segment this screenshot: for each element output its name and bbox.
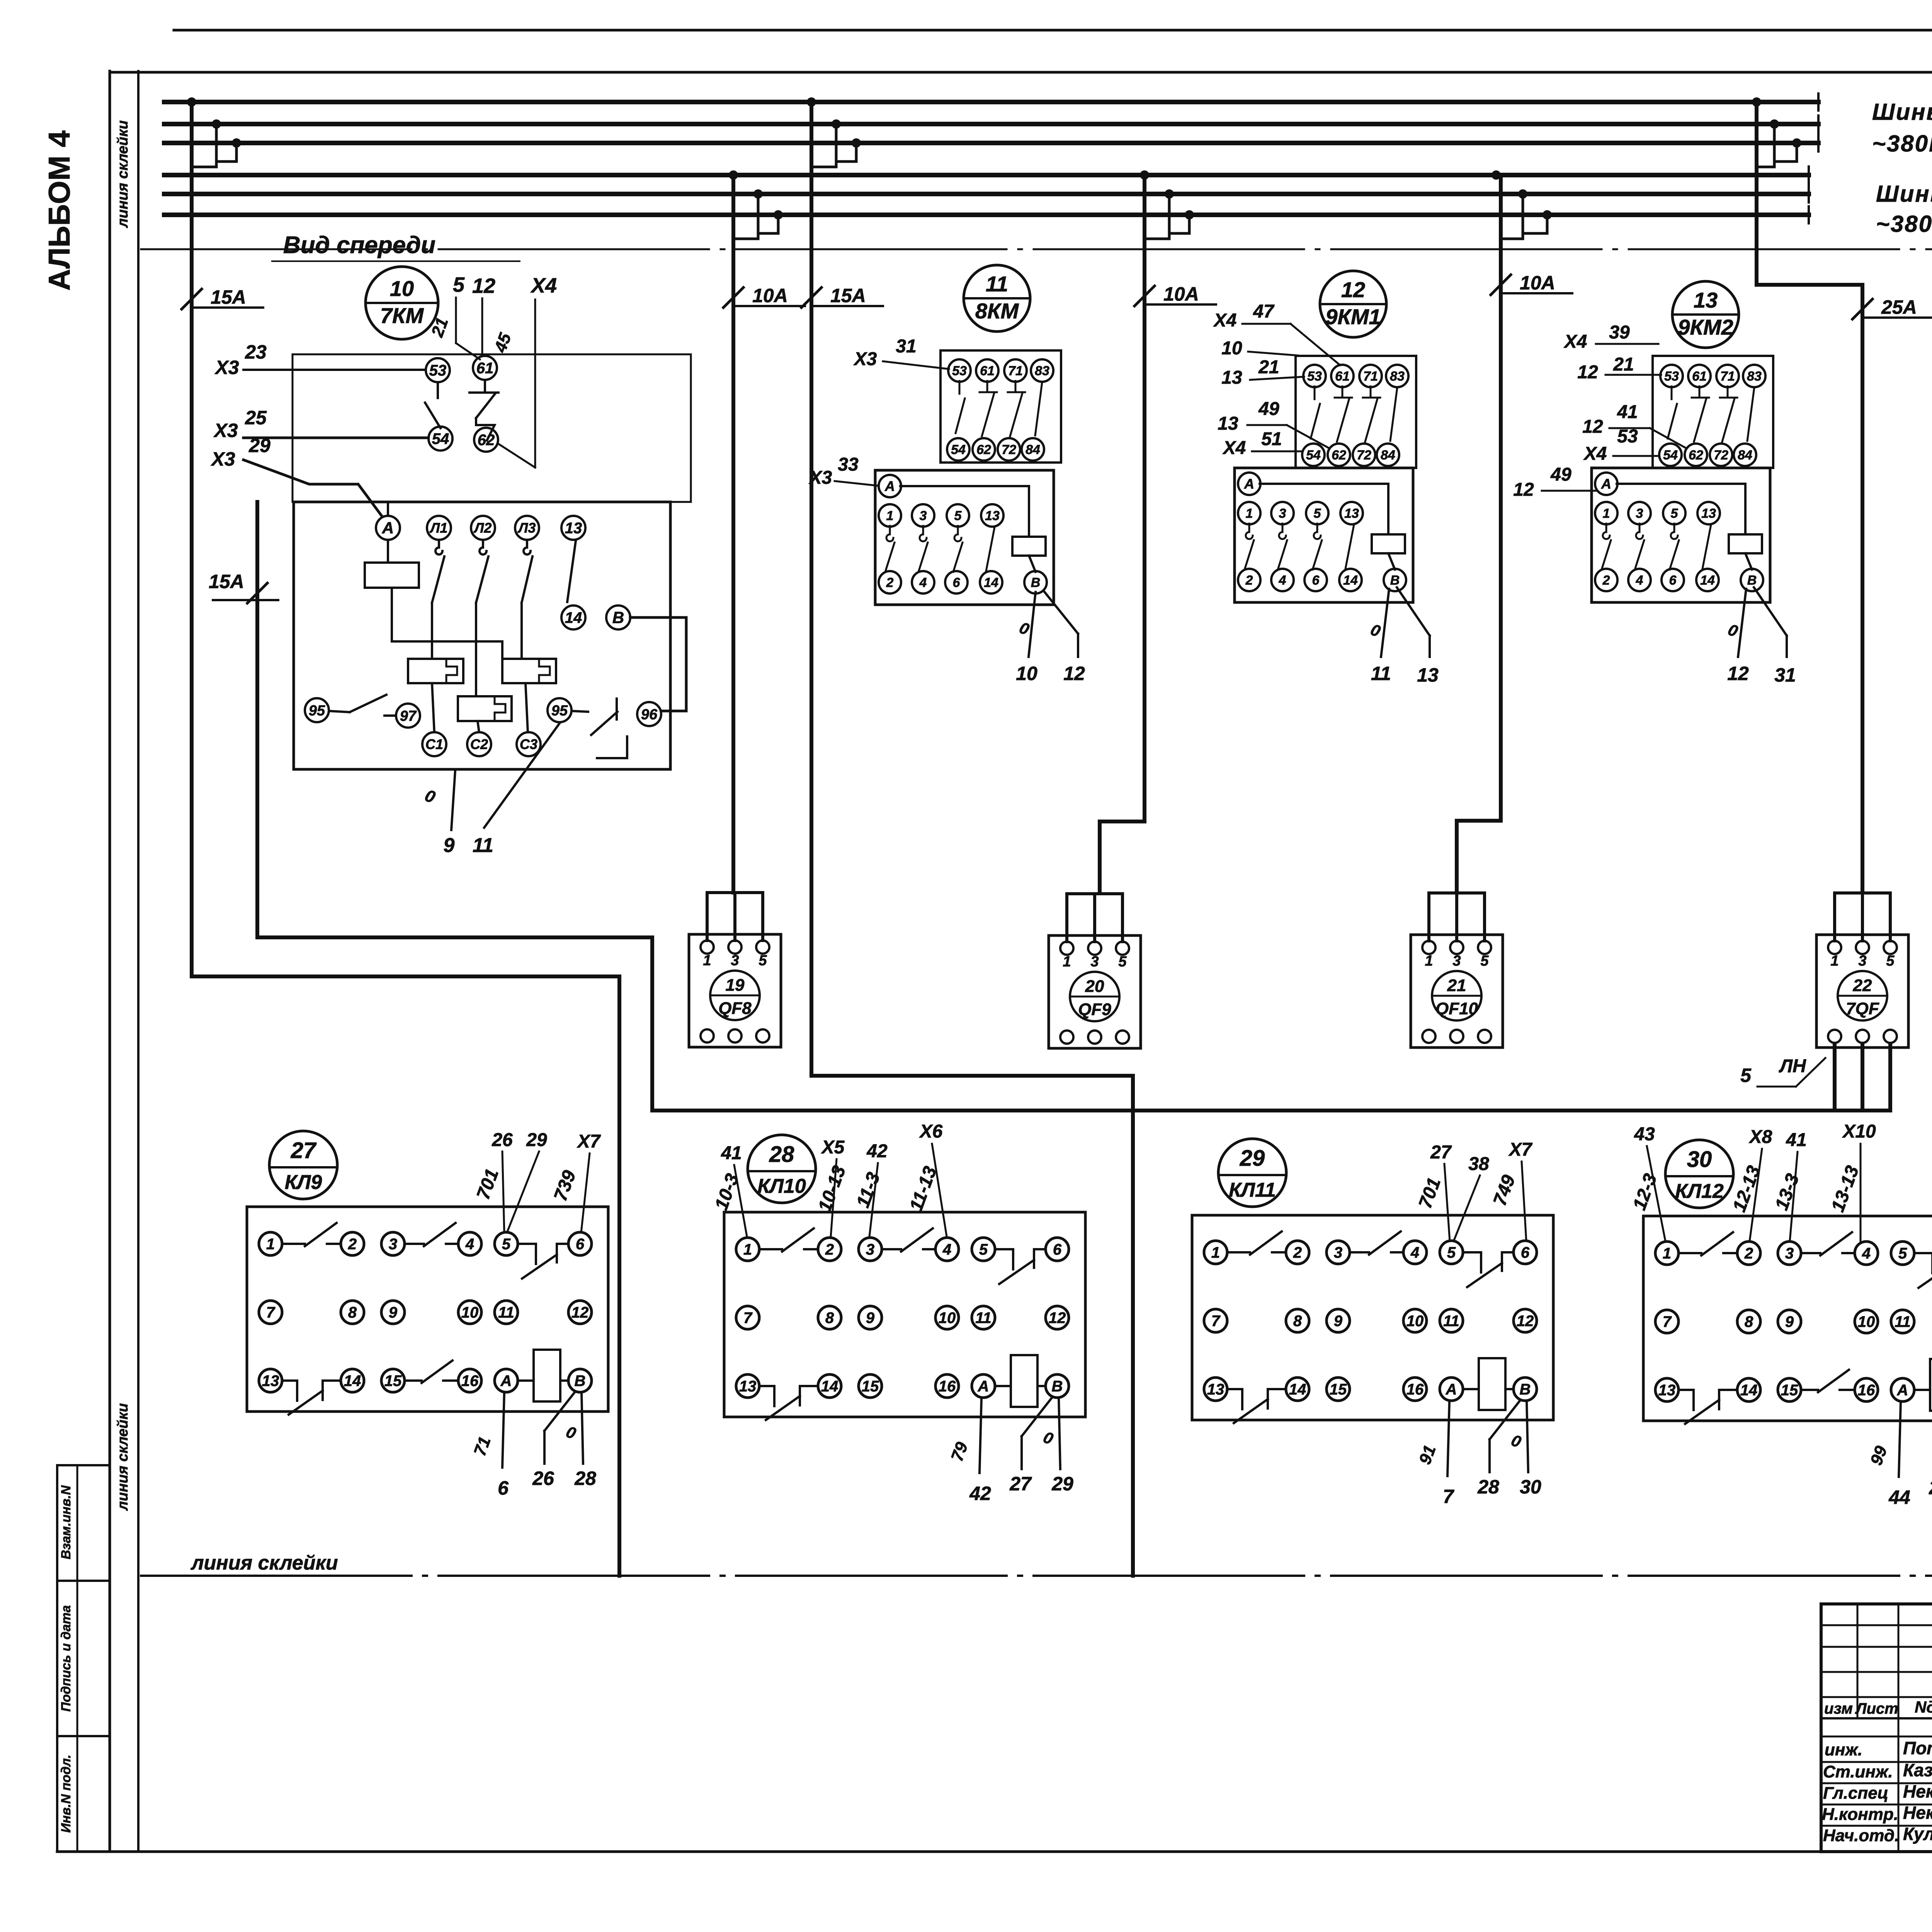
svg-text:3: 3 <box>1636 506 1643 521</box>
glue line (bottom, dash-dot) <box>141 1575 1932 1577</box>
wire stub 7QF bottom pin4 <box>1861 1036 1864 1111</box>
svg-text:61: 61 <box>980 364 995 378</box>
svg-text:Лист: Лист <box>1855 1700 1898 1717</box>
sheet bottom border <box>57 1850 1932 1853</box>
svg-text:14: 14 <box>984 575 998 590</box>
relay KL9 top wire labels 26 29 X7 701 739 <box>473 1130 601 1233</box>
svg-text:13: 13 <box>985 509 1000 523</box>
svg-text:19: 19 <box>726 976 745 995</box>
svg-text:Х4: Х4 <box>1563 332 1587 352</box>
wire from contactor 7KM top to breaker 7QF bottom (net LN) <box>257 502 1890 1111</box>
svg-text:14: 14 <box>1740 1382 1758 1399</box>
contactor 7KM aux terminal 53 <box>426 358 450 382</box>
svg-text:62: 62 <box>1332 448 1346 463</box>
contactor 7KM aux terminal 61 <box>473 356 497 380</box>
svg-text:13: 13 <box>1207 1381 1225 1398</box>
svg-text:27: 27 <box>1430 1142 1452 1163</box>
svg-text:42: 42 <box>866 1141 888 1162</box>
power bus 380V 400A section II - line 3 <box>164 206 1809 223</box>
svg-text:21: 21 <box>1258 357 1279 378</box>
svg-text:QF10: QF10 <box>1435 999 1478 1018</box>
contactor 7KM thermal trip contact 95-96 <box>571 699 627 758</box>
glue-strip divider line (left) <box>137 71 139 1852</box>
svg-text:12: 12 <box>1063 663 1085 684</box>
svg-text:71: 71 <box>1008 364 1023 378</box>
svg-text:Х7: Х7 <box>577 1131 601 1152</box>
svg-text:3: 3 <box>1279 506 1286 521</box>
fuse mark 15A on second feeder <box>801 285 883 308</box>
label линия склейки (bottom-left) <box>190 1552 338 1574</box>
svg-text:6: 6 <box>1669 573 1677 588</box>
svg-text:10: 10 <box>1858 1313 1875 1330</box>
wire stub 7QF bottom pin2 <box>1833 1036 1837 1111</box>
contactor 9KM1 auxiliary contact box <box>1296 356 1416 468</box>
svg-text:53: 53 <box>952 364 967 378</box>
bus tap 25A for breaker 7QF <box>1752 97 1801 167</box>
svg-text:7КМ: 7КМ <box>380 303 424 328</box>
contactor 9KM2 main block <box>1592 468 1770 602</box>
svg-text:13: 13 <box>1218 413 1238 434</box>
svg-text:Х4: Х4 <box>530 274 557 297</box>
svg-text:А: А <box>500 1372 512 1389</box>
svg-text:5: 5 <box>1740 1065 1752 1086</box>
svg-text:5: 5 <box>1671 506 1679 521</box>
svg-text:8: 8 <box>1745 1313 1753 1330</box>
svg-text:31: 31 <box>1774 664 1796 686</box>
svg-text:1: 1 <box>703 952 711 969</box>
label X3 31 with wire to 8KM terminal 53 <box>853 336 949 369</box>
svg-text:7: 7 <box>743 1310 753 1327</box>
svg-text:13: 13 <box>1417 664 1439 686</box>
svg-text:линия склейки: линия склейки <box>115 1403 131 1511</box>
contactor 7KM main block outline <box>294 502 670 769</box>
svg-text:29: 29 <box>526 1130 547 1150</box>
title block signature row Ст.инж. Казакова <box>1823 1760 1932 1805</box>
svg-text:3: 3 <box>731 952 739 969</box>
svg-text:30: 30 <box>1687 1147 1712 1172</box>
svg-text:12: 12 <box>1582 417 1603 437</box>
bus tap 10A for breaker QF10 <box>1492 170 1552 239</box>
svg-text:44: 44 <box>1888 1486 1910 1508</box>
svg-text:6: 6 <box>576 1236 585 1253</box>
svg-text:3: 3 <box>389 1236 397 1253</box>
svg-text:2: 2 <box>1602 573 1610 588</box>
wires and labels 0 10 12 under 8KM terminal B <box>1016 590 1085 684</box>
contactor 7KM main contact pole 3 <box>522 540 532 659</box>
svg-text:11: 11 <box>498 1304 514 1321</box>
svg-text:72: 72 <box>1714 448 1728 463</box>
svg-text:Л1: Л1 <box>429 520 448 536</box>
label X4 47 with wire to 9KM1 contact 61 <box>1213 301 1340 365</box>
svg-text:62: 62 <box>976 442 991 457</box>
svg-text:С3: С3 <box>520 736 537 752</box>
label АЛЬБОМ 4 (vertical) <box>42 131 76 291</box>
svg-text:49: 49 <box>1258 399 1279 419</box>
mark 0 under 7KM <box>422 786 438 807</box>
designator circle 11/8КМ for contactor 8KM <box>964 265 1030 332</box>
contactor 7KM aux terminal 62 <box>474 428 498 452</box>
contactor 7KM main contact pole 1 <box>432 540 444 659</box>
label X3 25 with wire to terminal 54 <box>213 407 429 441</box>
title block left grid verticals <box>1857 1604 1932 1852</box>
svg-text:3: 3 <box>866 1241 874 1258</box>
svg-text:1: 1 <box>743 1241 752 1258</box>
power bus 380V 400A section II - line 2 <box>164 185 1809 202</box>
svg-text:КЛ9: КЛ9 <box>285 1171 322 1194</box>
svg-text:12: 12 <box>1727 663 1749 684</box>
svg-text:КЛ12: КЛ12 <box>1675 1180 1724 1202</box>
svg-text:14: 14 <box>344 1372 361 1389</box>
svg-text:Л2: Л2 <box>473 520 492 536</box>
svg-text:QF9: QF9 <box>1078 1000 1111 1019</box>
svg-text:14: 14 <box>821 1378 838 1395</box>
svg-text:6: 6 <box>1053 1241 1062 1258</box>
contactor 7KM aux contact 13-14 <box>567 541 576 602</box>
svg-text:Х3: Х3 <box>213 420 238 441</box>
svg-text:39: 39 <box>1609 322 1630 343</box>
relay KL9 bottom labels 71 6 0 26 28 <box>470 1391 596 1499</box>
svg-text:10А: 10А <box>752 285 788 306</box>
svg-text:QF8: QF8 <box>718 999 752 1018</box>
contactor 7KM terminal C1 <box>422 683 446 756</box>
svg-text:1: 1 <box>886 509 894 523</box>
svg-text:12: 12 <box>1341 277 1365 302</box>
svg-text:9: 9 <box>389 1304 398 1321</box>
svg-text:10: 10 <box>390 276 414 301</box>
svg-text:9: 9 <box>1785 1313 1794 1330</box>
label Вид спереди <box>272 232 520 261</box>
contactor 7KM terminal 14 <box>561 605 585 629</box>
svg-text:Подпись и дата: Подпись и дата <box>59 1605 73 1712</box>
svg-text:7: 7 <box>1443 1486 1454 1507</box>
svg-text:1: 1 <box>1211 1244 1220 1261</box>
svg-text:Х3: Х3 <box>853 349 877 369</box>
svg-text:29: 29 <box>248 435 270 456</box>
label 12 with wire to contact 61 <box>472 274 495 356</box>
svg-text:15А: 15А <box>211 286 246 308</box>
svg-text:47: 47 <box>1253 301 1275 322</box>
wire 25A tap from 80A bus to breaker 7QF <box>1757 104 1862 893</box>
svg-text:4: 4 <box>465 1236 474 1253</box>
svg-text:12: 12 <box>571 1304 589 1321</box>
svg-text:5: 5 <box>1447 1244 1456 1261</box>
svg-text:А: А <box>382 519 394 537</box>
power bus 380V 80A section II - line 1 <box>164 94 1818 111</box>
svg-text:2: 2 <box>886 575 894 590</box>
svg-text:С2: С2 <box>470 736 488 752</box>
relay KL12 top wire labels 43 X8 41 X10 <box>1629 1121 1876 1241</box>
label 13 49 with wire to 9KM1 terminal 62 <box>1218 399 1329 448</box>
svg-text:10А: 10А <box>1520 272 1555 294</box>
svg-text:В: В <box>612 609 624 627</box>
svg-text:Nдокум.: Nдокум. <box>1915 1698 1932 1716</box>
svg-text:53: 53 <box>1617 426 1638 447</box>
label X4 with wire to contact 62 <box>499 274 557 468</box>
svg-text:7: 7 <box>1663 1313 1672 1330</box>
svg-text:14: 14 <box>1700 573 1715 588</box>
svg-text:23: 23 <box>245 341 267 363</box>
svg-text:7: 7 <box>1211 1313 1221 1330</box>
svg-text:Ст.инж.: Ст.инж. <box>1823 1762 1893 1781</box>
svg-text:16: 16 <box>1406 1381 1424 1398</box>
svg-text:Х10: Х10 <box>1842 1121 1876 1142</box>
fuse mark 25A on 7QF feeder <box>1852 296 1932 319</box>
svg-text:АЛЬБОМ 4: АЛЬБОМ 4 <box>42 131 76 291</box>
contactor 8KM main block <box>875 470 1054 605</box>
contactor 7KM terminal C2 <box>467 721 491 756</box>
power bus 380V 80A section II - line 3 <box>164 134 1818 151</box>
power bus 380V 400A section II - line 1 <box>164 167 1809 184</box>
label X4 51 with wire to 9KM1 terminal 54 <box>1222 429 1301 458</box>
svg-text:41: 41 <box>1617 402 1638 422</box>
svg-text:10А: 10А <box>1163 283 1199 305</box>
svg-text:54: 54 <box>432 430 449 447</box>
svg-text:20: 20 <box>1085 977 1104 996</box>
bus tap 15A (second) on 80A bus <box>807 97 861 167</box>
label 12 21 with wire to 9KM2 terminal 53 <box>1577 354 1661 383</box>
svg-text:12: 12 <box>1517 1313 1534 1330</box>
svg-text:4: 4 <box>1410 1244 1419 1261</box>
svg-text:5: 5 <box>502 1236 511 1253</box>
svg-text:10: 10 <box>1016 663 1037 684</box>
svg-text:8: 8 <box>825 1310 834 1327</box>
wire number 45 (slanted) <box>491 330 515 355</box>
relay block KL10 (28) <box>724 1212 1085 1420</box>
label X3 23 with wire to terminal 53 <box>214 341 426 378</box>
relay KL10 top wire labels 41 X5 42 X6 <box>711 1121 947 1236</box>
fuse mark 10A on QF9 feeder <box>1134 283 1216 306</box>
title block header row изм лист Nдокум подпись дата <box>1824 1697 1932 1717</box>
fuse mark 10A on QF10 feeder <box>1491 272 1572 295</box>
svg-text:1: 1 <box>1425 953 1433 969</box>
svg-text:15: 15 <box>1330 1381 1347 1398</box>
svg-text:Некрасов: Некрасов <box>1903 1781 1932 1801</box>
svg-text:61: 61 <box>476 360 494 377</box>
contactor 7KM terminal 13 <box>561 516 585 540</box>
svg-text:13: 13 <box>565 520 582 537</box>
svg-text:КЛ10: КЛ10 <box>757 1175 806 1197</box>
svg-text:В: В <box>575 1372 586 1389</box>
contactor 7KM thermal element 1 <box>408 659 463 683</box>
svg-text:Х8: Х8 <box>1748 1127 1772 1147</box>
svg-text:А: А <box>1244 476 1254 492</box>
svg-text:61: 61 <box>1692 369 1707 384</box>
contactor 9KM2 auxiliary contact box <box>1653 356 1773 468</box>
wires and labels 0 11 13 under 9KM1 terminal B <box>1368 587 1439 686</box>
svg-text:5: 5 <box>1480 953 1489 969</box>
bus tap 10A for breaker QF9 <box>1140 170 1194 239</box>
svg-text:15А: 15А <box>209 571 244 592</box>
svg-text:~380В 400А к панели н4: ~380В 400А к панели н4 <box>1876 211 1932 237</box>
designator circle 29/КЛ11 for relay KL11 <box>1218 1139 1286 1207</box>
svg-text:28: 28 <box>574 1468 596 1489</box>
svg-text:25А: 25А <box>1881 296 1917 318</box>
svg-text:4: 4 <box>919 575 927 590</box>
svg-text:13: 13 <box>1658 1382 1676 1399</box>
svg-text:2: 2 <box>1293 1244 1302 1261</box>
svg-text:12: 12 <box>1513 480 1534 500</box>
bus tap 15A for contactor 7KM <box>187 97 241 167</box>
wire from 7KM terminal B to terminal 96 <box>630 617 686 711</box>
contactor 7KM terminal 96 <box>637 702 661 726</box>
wire to label 9 under 7KM <box>444 771 455 857</box>
svg-text:15А: 15А <box>830 285 866 306</box>
svg-text:Х5: Х5 <box>821 1137 845 1158</box>
svg-text:2: 2 <box>1245 573 1253 588</box>
svg-text:13: 13 <box>1694 288 1718 312</box>
svg-text:61: 61 <box>1335 369 1350 384</box>
svg-text:5: 5 <box>759 952 767 969</box>
svg-text:13: 13 <box>262 1372 279 1389</box>
svg-text:В: В <box>1031 575 1041 590</box>
contactor 7KM terminal Л1 <box>427 516 451 540</box>
sheet inner top border <box>110 71 1932 74</box>
svg-text:83: 83 <box>1390 369 1405 384</box>
svg-text:В: В <box>1520 1381 1531 1398</box>
power bus 380V 80A section II - line 2 <box>164 116 1818 133</box>
svg-text:21: 21 <box>1447 976 1466 995</box>
svg-text:Х4: Х4 <box>1213 310 1237 331</box>
svg-text:54: 54 <box>951 442 966 457</box>
svg-text:12: 12 <box>472 274 495 298</box>
svg-text:11: 11 <box>986 272 1008 296</box>
fuse mark 15A inside 7KM feeder <box>209 571 278 603</box>
svg-text:54: 54 <box>1306 448 1321 463</box>
designator circle 13/9КМ2 for contactor 9KM2 <box>1672 281 1739 348</box>
svg-text:1: 1 <box>1663 1245 1671 1262</box>
contactor 7KM auxiliary contact area frame <box>293 354 691 502</box>
svg-text:4: 4 <box>1862 1245 1871 1262</box>
svg-text:95: 95 <box>551 702 568 719</box>
svg-text:41: 41 <box>721 1143 742 1163</box>
svg-text:14: 14 <box>1343 573 1358 588</box>
svg-text:4: 4 <box>942 1241 951 1258</box>
svg-text:29: 29 <box>1240 1146 1265 1171</box>
svg-text:ЛН: ЛН <box>1779 1056 1806 1077</box>
svg-text:1: 1 <box>1246 506 1253 521</box>
svg-text:33: 33 <box>838 454 859 475</box>
svg-text:5: 5 <box>1314 506 1321 521</box>
svg-text:38: 38 <box>1468 1154 1489 1174</box>
svg-text:13: 13 <box>1344 506 1359 521</box>
svg-text:3: 3 <box>920 509 927 523</box>
svg-text:28: 28 <box>1477 1476 1499 1498</box>
svg-text:72: 72 <box>1357 448 1371 463</box>
left stamp box Подпись и дата <box>57 1581 110 1736</box>
label X3 33 with wire to 8KM terminal A <box>808 454 878 488</box>
wire 15A tap2 from 80A bus to glue line (via x2932) <box>811 102 1133 1576</box>
svg-text:5: 5 <box>1886 953 1895 969</box>
wire 10A tap to breaker QF10 <box>1457 175 1501 893</box>
contactor 7KM terminal Л3 <box>515 516 539 540</box>
svg-text:2: 2 <box>348 1236 357 1253</box>
svg-text:Инв.N подл.: Инв.N подл. <box>59 1755 73 1833</box>
svg-text:53: 53 <box>429 362 447 379</box>
svg-text:11: 11 <box>1895 1313 1911 1330</box>
svg-text:96: 96 <box>641 706 658 723</box>
svg-text:В: В <box>1390 573 1400 588</box>
svg-text:53: 53 <box>1664 369 1679 384</box>
svg-text:9: 9 <box>1334 1313 1343 1330</box>
relay block KL11 (29) <box>1192 1215 1553 1423</box>
svg-text:5: 5 <box>1898 1245 1907 1262</box>
label 10 with wire on 9KM1 <box>1221 338 1298 359</box>
relay KL11 bottom labels 91 7 0 28 30 <box>1415 1400 1541 1507</box>
svg-text:10: 10 <box>1221 338 1242 359</box>
svg-text:Кулагин: Кулагин <box>1903 1824 1932 1844</box>
contactor 7KM aux terminal 54 <box>429 427 452 451</box>
svg-text:49: 49 <box>1550 464 1571 485</box>
svg-text:Х3: Х3 <box>214 357 239 378</box>
svg-text:11: 11 <box>1443 1313 1459 1330</box>
svg-text:линия склейки: линия склейки <box>190 1552 338 1574</box>
svg-text:1: 1 <box>1603 506 1610 521</box>
label Шины силовые II секция ~380В 400А к панели н4 <box>1876 181 1932 237</box>
svg-text:4: 4 <box>1636 573 1643 588</box>
fuse mark 10A on QF8 feeder <box>723 285 805 308</box>
svg-text:15: 15 <box>384 1372 402 1389</box>
svg-text:А: А <box>884 478 895 494</box>
svg-text:84: 84 <box>1381 448 1395 463</box>
label X4 with wire to 9KM2 terminal 54 <box>1583 444 1658 464</box>
contactor 7KM thermal element 3 <box>458 696 512 721</box>
svg-text:3: 3 <box>1785 1245 1794 1262</box>
svg-text:2: 2 <box>1744 1245 1753 1262</box>
svg-text:53: 53 <box>1307 369 1322 384</box>
svg-text:1: 1 <box>1830 953 1838 969</box>
contactor 7KM terminal Л2 <box>471 516 495 540</box>
svg-text:7QF: 7QF <box>1846 999 1879 1018</box>
svg-text:31: 31 <box>896 336 916 357</box>
wires and labels 0 12 31 under 9KM2 terminal B <box>1726 587 1796 686</box>
relay KL11 top wire labels 27 38 X7 701 749 <box>1415 1139 1533 1241</box>
label 13 21 with wire to 9KM1 terminal 53 <box>1221 357 1304 388</box>
svg-text:9КМ2: 9КМ2 <box>1678 315 1733 339</box>
svg-text:15: 15 <box>862 1378 879 1395</box>
svg-text:9КМ1: 9КМ1 <box>1325 304 1381 329</box>
bus tap 10A for breaker QF8 <box>729 170 783 239</box>
label 12 41 53 X4 with wire to 9KM2 terminal 62 <box>1582 402 1686 448</box>
svg-text:83: 83 <box>1035 364 1049 378</box>
svg-text:22: 22 <box>1853 976 1872 995</box>
left stamp box Инв.N подл. <box>57 1736 110 1852</box>
svg-text:13: 13 <box>739 1378 757 1395</box>
contactor 7KM main contact pole 2 <box>476 540 488 696</box>
svg-text:14: 14 <box>565 609 582 626</box>
svg-text:В: В <box>1052 1378 1063 1395</box>
svg-text:97: 97 <box>400 708 417 724</box>
svg-text:16: 16 <box>939 1378 956 1395</box>
sheet outer left border <box>109 71 111 1852</box>
title block signature row инж. Потоцкий <box>1825 1738 1932 1759</box>
svg-text:6: 6 <box>1312 573 1320 588</box>
svg-text:29: 29 <box>1051 1473 1073 1495</box>
svg-text:72: 72 <box>1002 442 1016 457</box>
title block signature row Н.контр. Некрасов <box>1822 1803 1932 1827</box>
left stamp box Взам.инв.N <box>57 1465 110 1581</box>
svg-text:95: 95 <box>309 702 325 719</box>
svg-text:28: 28 <box>769 1142 794 1167</box>
glue line (top, dash-dot) <box>141 248 1932 250</box>
svg-text:8КМ: 8КМ <box>975 299 1019 323</box>
svg-text:25: 25 <box>245 407 267 429</box>
svg-text:11: 11 <box>1371 663 1391 684</box>
svg-text:5: 5 <box>954 509 962 523</box>
svg-text:13: 13 <box>1221 367 1242 388</box>
svg-text:линия склейки: линия склейки <box>115 120 131 228</box>
contactor 7KM terminal C3 <box>517 683 541 756</box>
svg-text:3: 3 <box>1334 1244 1342 1261</box>
